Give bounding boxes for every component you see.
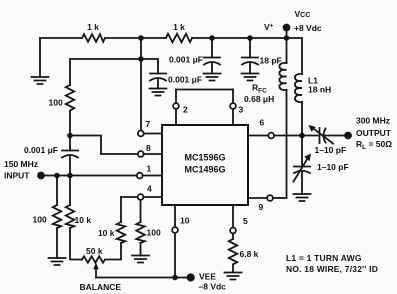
- wire R3 bottom to node: [69, 112, 71, 136]
- VCC terminal: [264, 9, 322, 38]
- wire L1 bottom to output node: [301, 102, 303, 136]
- svg-text:10: 10: [180, 216, 190, 226]
- svg-text:NO. 18 WIRE, 7/32'' ID: NO. 18 WIRE, 7/32'' ID: [286, 264, 378, 274]
- resistor R9 6.8k: [229, 239, 259, 264]
- svg-text:0.001 μF: 0.001 μF: [169, 55, 203, 65]
- svg-text:1 k: 1 k: [87, 22, 99, 32]
- svg-text:2: 2: [183, 105, 188, 115]
- svg-text:L1 = 1 TURN AWG: L1 = 1 TURN AWG: [286, 253, 362, 263]
- node junction output tank (302,135.5): [299, 133, 305, 139]
- svg-text:MC1596G: MC1596G: [184, 153, 225, 163]
- trimmer capacitor CT1 1-10 pF (series output): [302, 125, 346, 155]
- svg-text:0.001 μF: 0.001 μF: [24, 145, 58, 155]
- resistor R7 100 (pin4 to ground): [136, 200, 161, 243]
- wire joining pins 2 and 3: [176, 89, 233, 91]
- resistor R1 1k: [82, 22, 105, 42]
- resistor R5 10k: [66, 176, 92, 229]
- svg-text:BALANCE: BALANCE: [80, 282, 122, 292]
- wire R9 to ground: [232, 264, 234, 272]
- capacitor C3 0.001 uF (at x=158): [141, 59, 202, 89]
- wire staircase to pin 8: [70, 136, 138, 155]
- svg-text:100: 100: [147, 228, 161, 238]
- svg-text:150 MHz: 150 MHz: [4, 159, 38, 169]
- svg-text:OUTPUT: OUTPUT: [356, 128, 392, 138]
- svg-text:3: 3: [239, 105, 244, 115]
- wire rail between R1 and R2: [105, 37, 166, 39]
- svg-text:5: 5: [243, 216, 248, 226]
- node junction at (57,175.5): [54, 173, 60, 179]
- svg-text:1: 1: [147, 164, 152, 174]
- svg-text:50 k: 50 k: [86, 246, 103, 256]
- svg-text:300 MHz: 300 MHz: [356, 116, 390, 126]
- capacitor C4 0.001 uF input coupling: [24, 136, 78, 176]
- svg-text:1–10 pF: 1–10 pF: [317, 162, 349, 172]
- ground for C3: [150, 89, 167, 96]
- svg-text:1 k: 1 k: [173, 22, 185, 32]
- pin 10: [172, 205, 190, 278]
- wire rail right segment to L1 corner: [192, 37, 302, 39]
- potentiometer R8 50k: [82, 246, 105, 263]
- wire RFC bottom down to pin9 row: [286, 90, 288, 198]
- node junction at (70,175.5): [67, 173, 73, 179]
- wire R4 to ground: [56, 228, 58, 258]
- node junction V+ at x=286.5: [284, 35, 290, 41]
- capacitor C1 0.001 uF (bypass at x=212): [169, 38, 220, 74]
- pin 6: [248, 118, 302, 139]
- svg-text:MC1496G: MC1496G: [184, 165, 225, 175]
- svg-text:INPUT: INPUT: [4, 171, 30, 181]
- ground for R9: [225, 273, 242, 280]
- wire input to pin 1: [45, 175, 137, 177]
- svg-text:18 nH: 18 nH: [308, 85, 331, 95]
- node junction at x=212: [209, 35, 215, 41]
- svg-text:VEE: VEE: [199, 272, 216, 282]
- wire R5 bottom to pot row: [70, 228, 82, 260]
- wire wiper to VEE: [96, 277, 187, 279]
- svg-text:0.001 μF: 0.001 μF: [168, 75, 202, 85]
- pin 5: [230, 205, 248, 239]
- node junction at (70,135.5): [67, 133, 73, 139]
- resistor R2 1k: [166, 22, 192, 42]
- wire R7 to ground: [140, 243, 142, 256]
- wire from 100ohm branch to node: [70, 58, 141, 60]
- svg-text:0.68 μH: 0.68 μH: [244, 94, 274, 104]
- output terminal 300 MHz: [344, 116, 392, 152]
- note text L1: [286, 253, 378, 274]
- svg-text:18 pF: 18 pF: [260, 56, 282, 66]
- svg-text:6: 6: [260, 118, 265, 128]
- svg-text:–8 Vdc: –8 Vdc: [199, 282, 227, 292]
- svg-text:7: 7: [146, 119, 151, 129]
- ground for CT2: [294, 194, 311, 201]
- wire pot right end up to R6: [105, 243, 121, 260]
- node junction at x=141 top rail: [138, 35, 144, 41]
- pin 9: [248, 195, 287, 212]
- svg-text:6.8 k: 6.8 k: [240, 249, 259, 259]
- pin 8: [138, 143, 162, 157]
- wire top rail left segment: [40, 37, 82, 39]
- svg-text:1–10 pF: 1–10 pF: [315, 145, 347, 155]
- svg-text:8: 8: [146, 143, 151, 153]
- ground for R4: [49, 258, 66, 265]
- wire branch from node(141,38) down: [140, 38, 142, 131]
- inductor L1 18 nH: [295, 38, 331, 102]
- wiper arrow of R8: [93, 263, 99, 278]
- pin 1: [137, 164, 162, 179]
- trimmer capacitor CT2 1-10 pF (shunt): [294, 136, 349, 195]
- svg-text:10 k: 10 k: [98, 228, 115, 238]
- pin 4: [121, 184, 162, 200]
- node junction at (175,277.5): [172, 275, 178, 281]
- pin 2: [173, 90, 188, 126]
- ground for R7: [132, 256, 149, 263]
- svg-text:+8 Vdc: +8 Vdc: [294, 23, 322, 33]
- ground for C2: [242, 74, 259, 81]
- svg-text:4: 4: [147, 184, 152, 194]
- node junction at x=250: [247, 35, 253, 41]
- VEE terminal: [187, 272, 227, 292]
- capacitor C2 18 pF: [242, 38, 282, 74]
- ground for C1: [204, 74, 221, 81]
- svg-text:100: 100: [33, 215, 47, 225]
- IC U1 MC1596G box: [162, 125, 248, 205]
- resistor R3 100 (upper left bias): [49, 59, 75, 112]
- svg-text:100: 100: [49, 98, 63, 108]
- pin 7: [138, 119, 162, 136]
- input terminal 150 MHz: [4, 159, 45, 181]
- svg-text:9: 9: [259, 202, 264, 212]
- inductor RFC 0.68 uH: [244, 38, 287, 104]
- node junction at (141,59): [138, 56, 144, 62]
- pin 3: [230, 90, 243, 126]
- resistor R6 10k (balance leg): [98, 197, 125, 243]
- ground G1 top-left: [32, 38, 49, 84]
- resistor R4 100 (input termination): [33, 176, 62, 229]
- svg-text:10 k: 10 k: [75, 215, 92, 225]
